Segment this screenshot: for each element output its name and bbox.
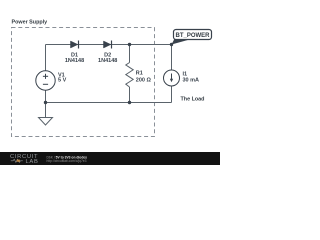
svg-text:1N4148: 1N4148 [65, 58, 84, 64]
svg-text:1N4148: 1N4148 [98, 58, 117, 64]
svg-text:LAB: LAB [26, 159, 39, 165]
svg-text:30 mA: 30 mA [183, 77, 200, 83]
svg-text:R1: R1 [136, 71, 143, 77]
svg-text:http://circuitlab.com/c/jq7e3: http://circuitlab.com/c/jq7e3 [47, 159, 87, 163]
svg-text:200 Ω: 200 Ω [136, 78, 152, 84]
svg-text:BT_POWER: BT_POWER [175, 33, 210, 39]
svg-text:Power Supply: Power Supply [12, 20, 48, 26]
svg-text:The Load: The Load [181, 97, 205, 103]
svg-text:5 V: 5 V [58, 78, 67, 84]
